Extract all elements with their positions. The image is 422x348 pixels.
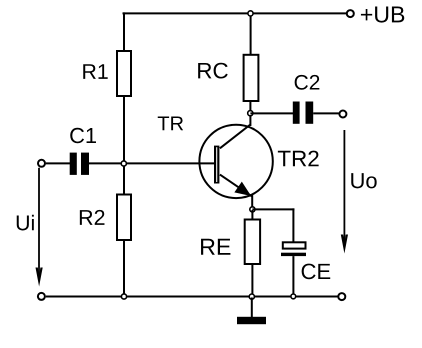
wire: node E to CE branch (right then down) [252, 208, 294, 242]
node C (collector junction) [248, 111, 253, 116]
transistor TR2 (NPN) [199, 125, 272, 199]
label R1 [83, 64, 107, 79]
node E (emitter junction) [250, 207, 255, 212]
node at top rail (RC / +UB junction) [248, 11, 253, 16]
terminal +UB [347, 10, 354, 17]
wire: input terminal to C1 [46, 162, 71, 164]
label CE [302, 264, 331, 280]
wire: RE to bottom rail [251, 264, 253, 298]
label +UB [361, 6, 404, 22]
terminal output + [339, 111, 346, 118]
capacitor C2 [293, 102, 313, 124]
wire: +UB top supply rail [123, 12, 347, 14]
wire: bottom rail [46, 296, 338, 298]
wire: R2 to bottom rail [123, 240, 125, 298]
terminal output - [338, 293, 345, 300]
resistor R1 [117, 51, 131, 96]
label R2 [80, 210, 105, 225]
node: bottom rail / R2 junction [121, 294, 126, 299]
node: bottom rail / RE-ground junction [249, 294, 254, 299]
label TR2 [278, 151, 319, 167]
Uo measurement arrow [341, 130, 348, 254]
label TR [158, 116, 183, 130]
ground [237, 298, 266, 325]
resistor RE [245, 220, 260, 265]
capacitor CE (electrolytic) [281, 242, 306, 256]
terminal input - [38, 293, 45, 300]
Ui measurement arrow [36, 168, 43, 287]
wire: node C to C2 [250, 112, 293, 114]
label C1 [70, 128, 96, 143]
node B (junction of R1, R2, C1, base) [121, 161, 126, 166]
node: bottom rail / CE junction [291, 294, 296, 299]
wire: C2 to output terminal [313, 112, 338, 114]
label Uo [351, 173, 376, 188]
wire: node B to R2 [123, 164, 125, 195]
wire: top rail to R1 [123, 12, 125, 52]
terminal input + [38, 160, 45, 167]
resistor RC [244, 55, 259, 101]
wire: R1 to node B [123, 96, 125, 164]
wire: node E to RE [251, 210, 253, 220]
label RC [198, 63, 228, 79]
wire: emitter to node E [251, 195, 253, 207]
resistor R2 [117, 195, 131, 241]
capacitor C1 [70, 153, 89, 175]
wire: RC to top rail [250, 12, 252, 54]
wire: collector to node C [249, 102, 251, 127]
wire: CE to bottom rail [292, 256, 294, 297]
label C2 [295, 75, 320, 90]
wire: C1 to base (through node B) [89, 162, 214, 164]
label RE [201, 239, 230, 255]
label Ui [17, 215, 34, 231]
